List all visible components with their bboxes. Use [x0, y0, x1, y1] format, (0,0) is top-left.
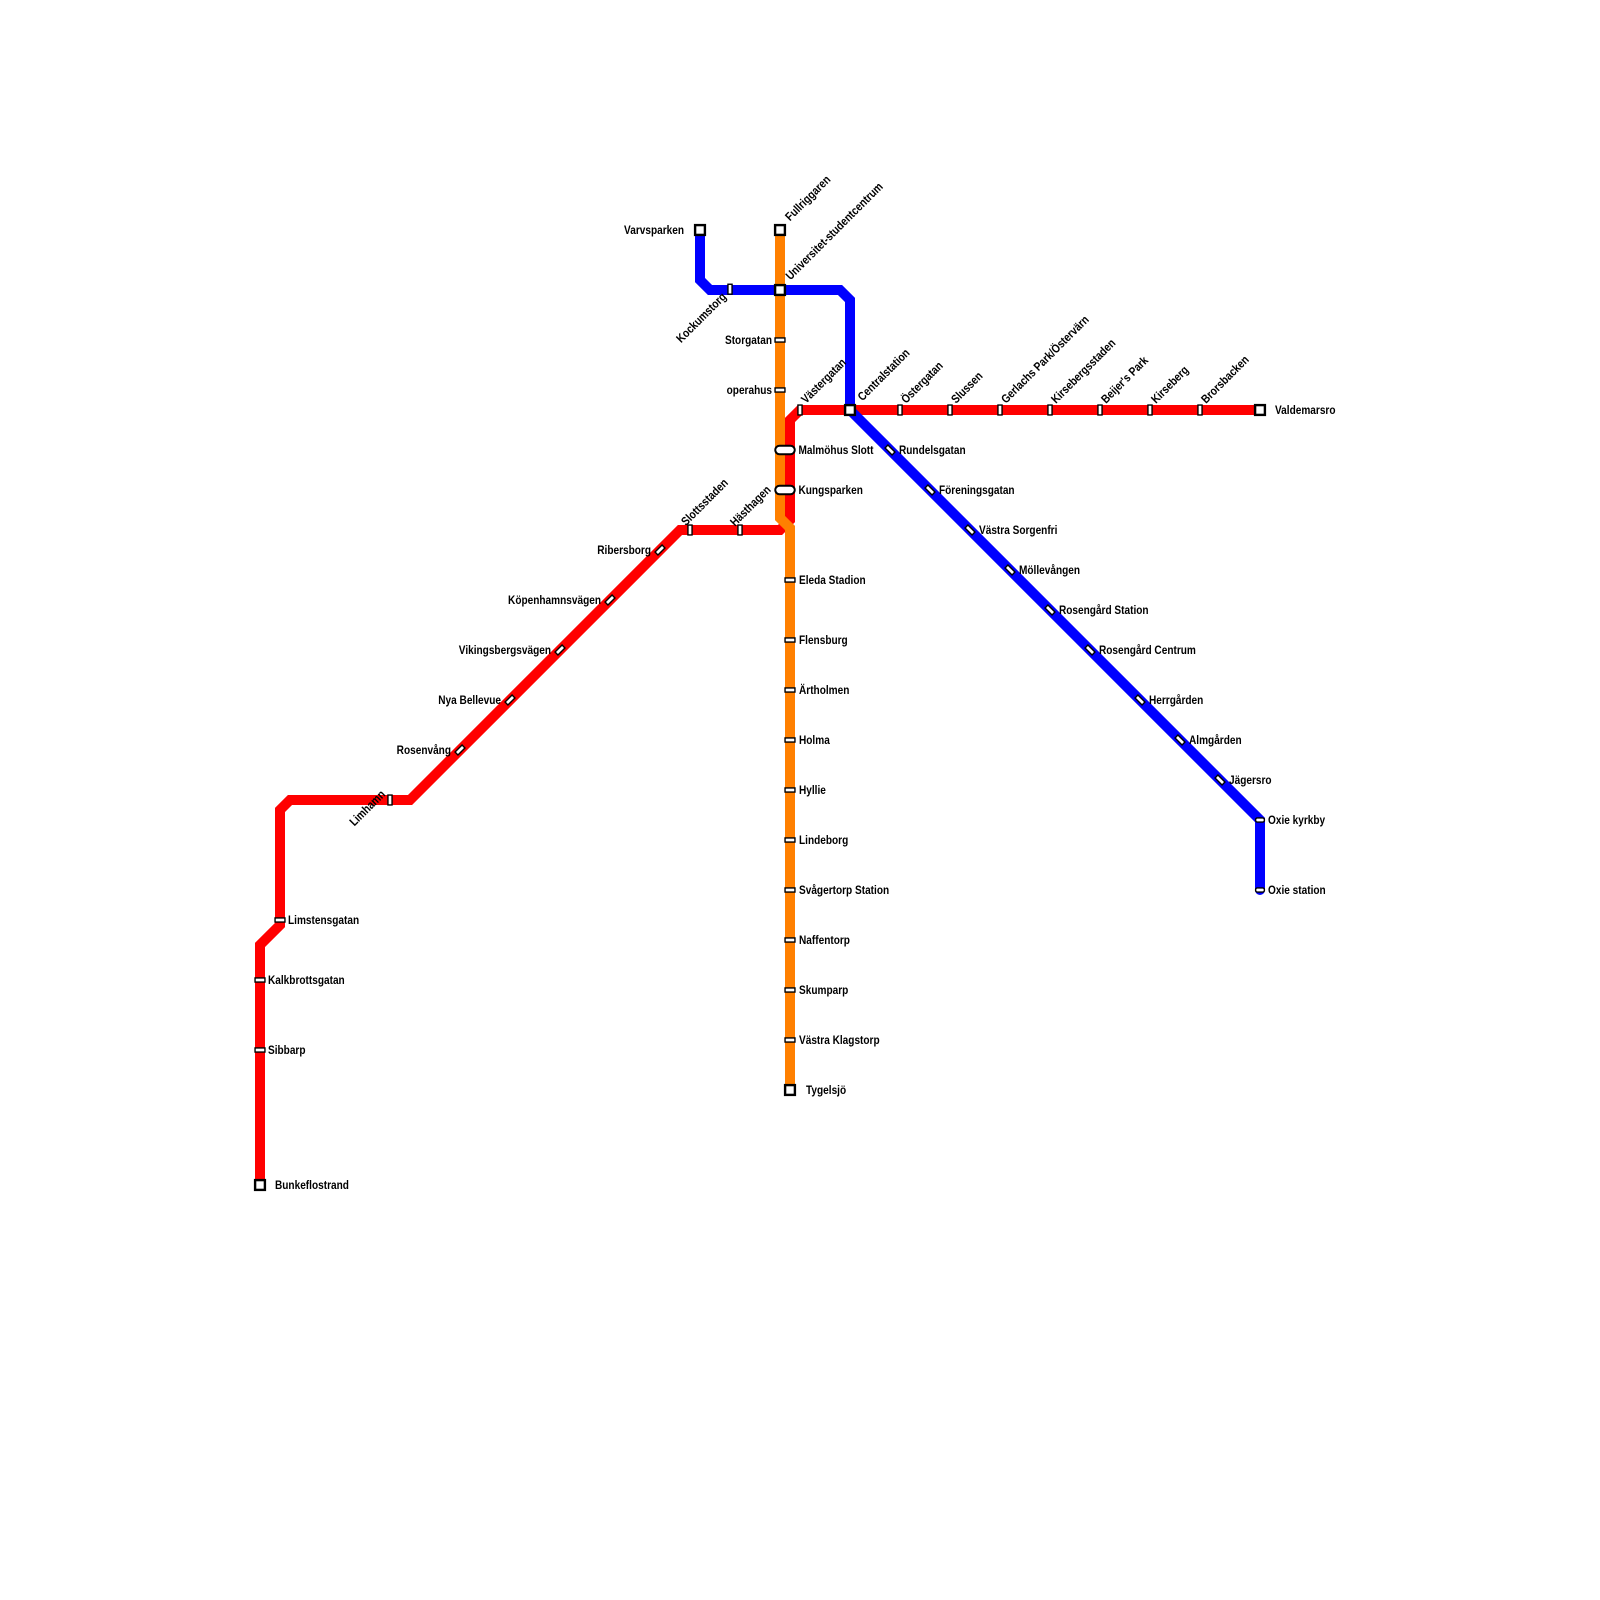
svg-text:Eleda Stadion: Eleda Stadion	[799, 574, 866, 587]
svg-text:Hyllie: Hyllie	[799, 784, 826, 797]
svg-text:Köpenhamnsvägen: Köpenhamnsvägen	[508, 594, 601, 607]
svg-text:Rosengård Station: Rosengård Station	[1059, 604, 1149, 617]
svg-text:Storgatan: Storgatan	[725, 334, 772, 347]
svg-text:Ärtholmen: Ärtholmen	[799, 683, 850, 697]
svg-text:Jägersro: Jägersro	[1229, 774, 1272, 787]
svg-text:Flensburg: Flensburg	[799, 634, 848, 647]
svg-text:Oxie kyrkby: Oxie kyrkby	[1268, 814, 1326, 827]
svg-text:Vikingsbergsvägen: Vikingsbergsvägen	[459, 644, 551, 657]
svg-text:Lindeborg: Lindeborg	[799, 834, 848, 847]
svg-text:operahus: operahus	[727, 384, 772, 397]
svg-text:Valdemarsro: Valdemarsro	[1275, 404, 1336, 417]
svg-text:Naffentorp: Naffentorp	[799, 934, 850, 947]
svg-text:Ribersborg: Ribersborg	[597, 544, 651, 557]
svg-text:Herrgården: Herrgården	[1149, 694, 1204, 707]
svg-text:Västra Klagstorp: Västra Klagstorp	[799, 1034, 880, 1047]
svg-text:Limstensgatan: Limstensgatan	[288, 914, 359, 927]
svg-text:Rosengård Centrum: Rosengård Centrum	[1099, 644, 1196, 657]
svg-text:Tygelsjö: Tygelsjö	[806, 1084, 846, 1097]
svg-text:Nya Bellevue: Nya Bellevue	[438, 694, 501, 707]
svg-text:Malmöhus Slott: Malmöhus Slott	[799, 444, 874, 457]
svg-text:Varvsparken: Varvsparken	[624, 224, 684, 237]
svg-text:Föreningsgatan: Föreningsgatan	[939, 484, 1015, 497]
svg-text:Holma: Holma	[799, 734, 831, 747]
svg-text:Kungsparken: Kungsparken	[799, 484, 864, 497]
svg-text:Svågertorp Station: Svågertorp Station	[799, 884, 889, 897]
svg-text:Rosenvång: Rosenvång	[397, 744, 452, 757]
svg-text:Kalkbrottsgatan: Kalkbrottsgatan	[268, 974, 345, 987]
svg-text:Skumparp: Skumparp	[799, 984, 848, 997]
svg-text:Almgården: Almgården	[1189, 734, 1242, 747]
svg-text:Möllevången: Möllevången	[1019, 564, 1080, 577]
svg-text:Oxie station: Oxie station	[1268, 884, 1326, 897]
svg-text:Rundelsgatan: Rundelsgatan	[899, 444, 966, 457]
svg-text:Sibbarp: Sibbarp	[268, 1044, 306, 1057]
svg-text:Bunkeflostrand: Bunkeflostrand	[275, 1179, 349, 1192]
svg-text:Västra Sorgenfri: Västra Sorgenfri	[979, 524, 1057, 537]
